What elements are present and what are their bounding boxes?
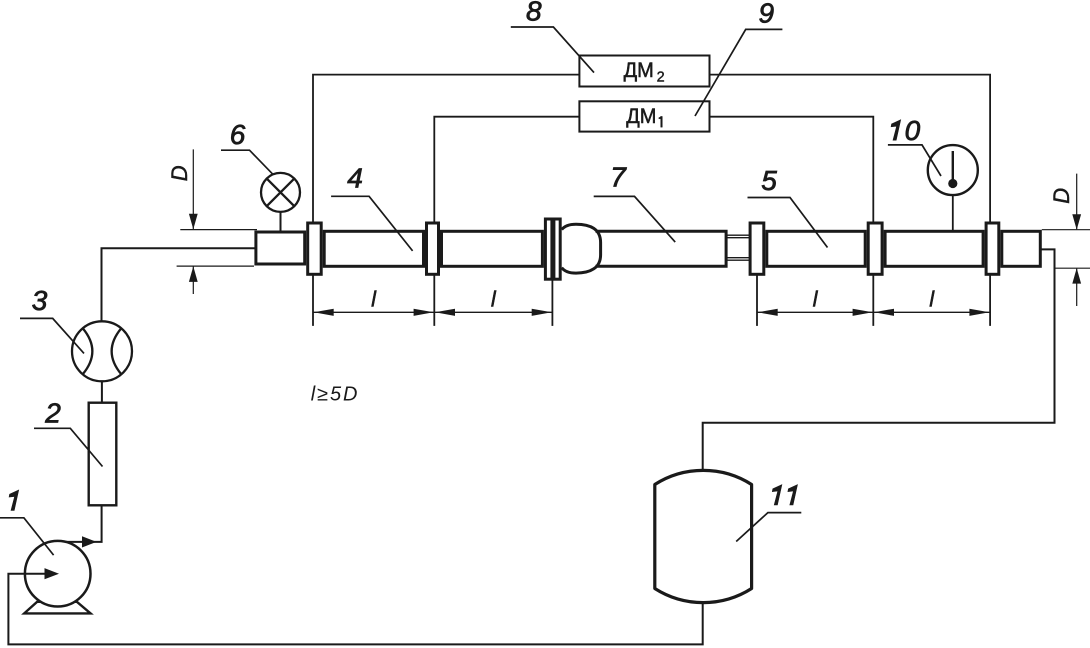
tank 11 [655, 470, 752, 602]
valve 6: circle with X [261, 173, 300, 212]
dimension l lines left group [313, 311, 552, 313]
leader 10 [888, 145, 941, 176]
flange F2 [427, 223, 439, 274]
impulse line: DM2 left tap at flange F1 [313, 75, 579, 326]
dimension D left: dimension line [192, 149, 194, 294]
stem of gauge 10 [952, 195, 954, 232]
leader 7 [594, 196, 676, 242]
label 1 [9, 490, 19, 510]
pipe: section between F2 and double flange [442, 231, 543, 266]
svg-text:3: 3 [32, 285, 48, 316]
svg-text:9: 9 [759, 0, 775, 28]
leader 6 [221, 150, 272, 174]
connector small pipe after section 7 [726, 235, 752, 260]
box DM2 (8) [579, 56, 709, 87]
pump 1: base [24, 602, 90, 614]
gauge 10: thermometer circle [928, 145, 978, 195]
leader 5 [748, 198, 828, 248]
svg-text:7: 7 [610, 162, 627, 193]
svg-text:6: 6 [230, 119, 246, 150]
dimension D right: extension lines [1042, 230, 1090, 269]
nozzle bulge 7 [562, 224, 601, 273]
valve 3: circle with two arcs [72, 321, 132, 381]
svg-text:l: l [813, 287, 819, 312]
svg-text:2: 2 [657, 69, 665, 85]
flow arrow into pump [45, 568, 60, 579]
impulse line: DM1 left tap at flange F2 [434, 117, 580, 326]
dimension l arrowheads right group [758, 309, 778, 316]
dimension D left: arrowheads [189, 214, 198, 230]
svg-text:2: 2 [44, 398, 61, 429]
svg-text:l: l [929, 287, 935, 312]
svg-text:l: l [371, 287, 377, 312]
pipe: section 5 between F3 and F4 [767, 231, 865, 266]
leader 2 [34, 428, 103, 466]
flow arrow pump to filter [82, 536, 97, 547]
pipe: section 4 between F1 and F2 [324, 231, 423, 266]
svg-text:D: D [167, 165, 192, 181]
svg-text:ДМ: ДМ [624, 59, 654, 82]
dimension l lines right group [757, 311, 990, 313]
stem of valve 6 [280, 212, 282, 232]
leader 8 [511, 27, 594, 73]
dimension D right: arrowheads [1072, 214, 1081, 230]
svg-text:l≥5D: l≥5D [311, 383, 360, 405]
flange F3 [750, 223, 764, 274]
dimension D left: extension lines [177, 230, 257, 267]
pipe: outlet stub [1002, 231, 1041, 266]
extension line below flange F3 [756, 250, 758, 326]
pump 1: internal flow arrow [25, 573, 45, 575]
pipe: section between F4 and F5 [885, 231, 983, 266]
dimension l arrowheads left group [314, 309, 334, 316]
svg-text:4: 4 [347, 162, 363, 193]
label 11 [772, 485, 782, 505]
wire: filter 2 down to pump outlet corner [64, 507, 102, 542]
flange F1 [308, 223, 322, 274]
filter 2: vertical rectangle [89, 403, 117, 506]
double flange of nozzle [545, 219, 552, 279]
box DM1 (9) [579, 101, 709, 131]
svg-text:8: 8 [526, 0, 542, 26]
impulse line: DM2 right tap at flange F5 [710, 75, 991, 326]
leader 9 [695, 29, 782, 116]
leader 11 [736, 513, 801, 542]
dimension D right: dimension line [1076, 174, 1078, 306]
pump 1: circle [25, 541, 91, 607]
flange F4 [868, 223, 882, 274]
wire: feed line from valve 3 to pipe inlet [102, 248, 256, 321]
pipe: inlet section [256, 232, 305, 264]
svg-text:l: l [491, 287, 497, 312]
leader 3 [20, 318, 84, 353]
wire: pump suction from bottom loop [8, 574, 702, 645]
flange F5 [986, 223, 999, 274]
svg-text:5: 5 [761, 165, 777, 196]
leader 4 [331, 196, 413, 251]
leader 1 [0, 518, 54, 555]
svg-text:ДМ: ДМ [626, 105, 656, 128]
wire: pipe outlet down and to tank 11 top [703, 249, 1055, 471]
svg-text:D: D [1049, 188, 1074, 204]
impulse line: DM1 right tap at flange F4 [710, 117, 874, 326]
label 10 [891, 120, 901, 140]
pipe: section 7 [596, 231, 727, 266]
wire: valve 3 to filter 2 [101, 381, 103, 401]
extension line below double flange [551, 250, 553, 326]
svg-text:0: 0 [905, 115, 921, 146]
